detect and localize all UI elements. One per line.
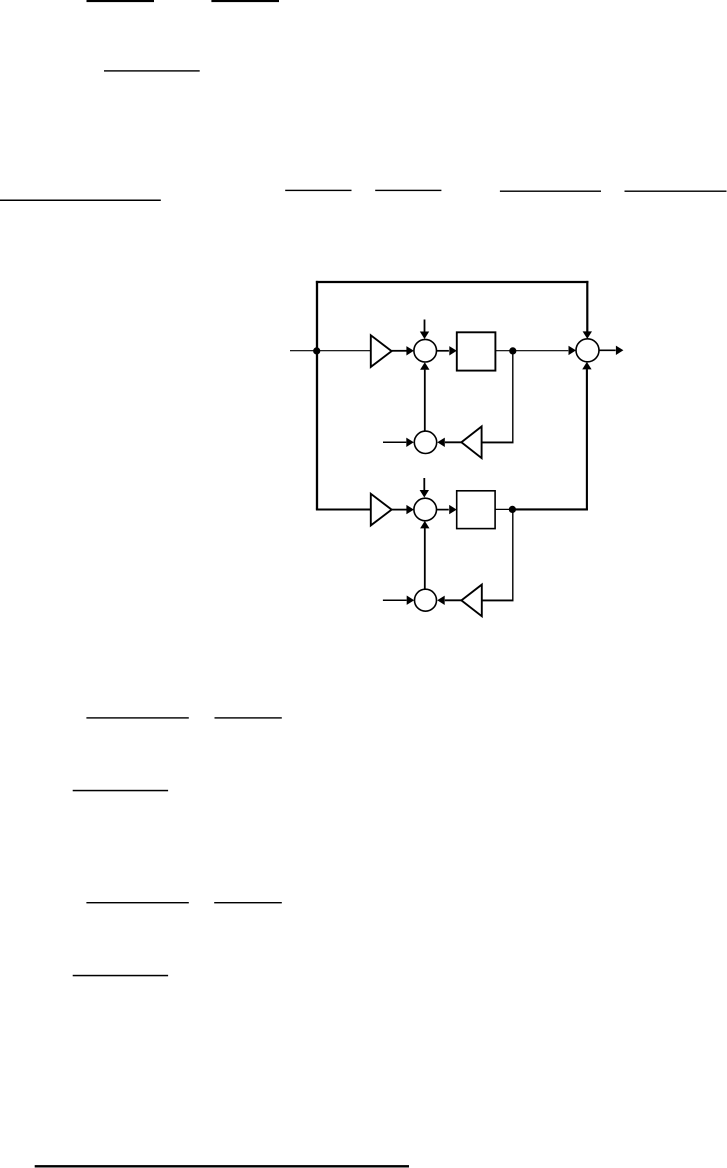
- wire: right vertical rise into output summer bottom: [586, 369, 588, 510]
- wire: D1 output to output summer S0: [495, 350, 568, 352]
- wire: S1 to delay block D1: [437, 350, 449, 352]
- equation fraction bar (fourth paragraph): [73, 975, 168, 977]
- equation fraction bar 3 of inline row: [500, 191, 601, 192]
- wire: N2 right to rising vertical: [512, 508, 588, 510]
- delay block D2 (lower branch, square): [457, 491, 495, 529]
- equation fraction bar (below diagram, row 1 left): [86, 717, 188, 718]
- arrowhead: left into summer S2 right: [437, 438, 445, 447]
- arrowhead: into output summer S0 left: [569, 346, 577, 355]
- node: input junction dot: [313, 347, 320, 354]
- wire: N1 down to feedback amp F1: [512, 351, 514, 443]
- wire: N2 down to feedback amp F2: [512, 509, 514, 600]
- summing junction S3 (lower branch): [414, 498, 437, 521]
- wire: A1 output to summer S1: [392, 350, 407, 352]
- wire: stub into S1 top: [424, 320, 426, 333]
- equation rule at left margin (clipped): [0, 200, 161, 202]
- equation fraction bar 4 of inline row: [625, 191, 727, 192]
- arrowhead: into delay block D2 left: [449, 505, 457, 514]
- wire: right vertical drop into output summer top: [586, 281, 588, 333]
- arrowhead: left into summer S4 right: [437, 596, 445, 605]
- amplifier A2 (lower branch gain, right-pointing triangle): [371, 494, 392, 526]
- wire: feedforward top line from left vertical to output summer: [316, 281, 589, 283]
- arrowhead: down into S3 top: [420, 490, 429, 498]
- wire: into F2 input (flat side): [482, 599, 514, 601]
- summing junction S1 (upper branch): [414, 339, 437, 362]
- wire: S2 up to S1 bottom: [424, 370, 426, 432]
- wire: S3 to delay block D2: [437, 509, 449, 511]
- equation fraction bar 1 of inline row: [285, 190, 351, 191]
- arrowhead: into summer S4 left: [407, 596, 415, 605]
- summing junction S2 (upper feedback): [414, 431, 436, 453]
- wire: left vertical bus: [316, 281, 318, 510]
- wire: into F1 input (flat side): [482, 441, 514, 443]
- summing junction S4 (lower feedback): [415, 589, 437, 611]
- wire: external input into S4 left: [383, 599, 407, 601]
- arrowhead: down into output summer S0 top: [583, 331, 592, 339]
- equation fraction bar 2 of inline row: [375, 190, 441, 191]
- arrowhead: up into output summer S0 bottom: [582, 362, 591, 370]
- equation fraction bar (below diagram, row 2 right): [214, 902, 282, 903]
- equation fraction bar (top second, clipped at page top): [211, 0, 279, 2]
- arrowhead: into delay block D1 left: [449, 346, 457, 355]
- equation fraction bar (below diagram, row 1 right): [215, 717, 282, 718]
- summing junction S0 (output summer): [576, 339, 599, 362]
- arrowhead: into summer S1 left: [406, 346, 414, 355]
- wire: F1 output to summer S2: [445, 441, 462, 443]
- wire: A2 output to summer S3: [392, 509, 407, 511]
- equation fraction bar (below diagram, row 2 left): [86, 902, 188, 903]
- wire: D2 output to pick-off node N2: [495, 508, 513, 510]
- wire: output line: [599, 349, 616, 351]
- arrowhead: up into S3 bottom: [420, 521, 429, 529]
- wire: S4 up to S3 bottom: [424, 528, 426, 589]
- node N1: upper branch pick-off dot: [509, 347, 516, 354]
- arrowhead: into summer S3 left: [406, 505, 414, 514]
- arrowhead: output arrow: [616, 346, 624, 355]
- arrowhead: down into S1 top: [420, 332, 429, 340]
- wire: external input into S2 left: [383, 441, 406, 443]
- arrowhead: up into S1 bottom: [420, 362, 429, 370]
- wire: input line: [290, 350, 371, 352]
- wire: F2 output to summer S4: [445, 599, 462, 601]
- amplifier A1 (upper branch gain, right-pointing triangle): [371, 335, 392, 367]
- equation fraction bar (second paragraph): [73, 790, 168, 792]
- node N2: lower branch pick-off dot: [509, 506, 516, 513]
- equation fraction bar (second equation line): [104, 70, 200, 71]
- amplifier F1 (upper feedback gain, left-pointing triangle): [461, 427, 481, 459]
- wire: left bus into lower branch amp A2: [316, 508, 371, 510]
- delay block D1 (upper branch, square): [457, 332, 496, 370]
- amplifier F2 (lower feedback gain, left-pointing triangle): [461, 585, 481, 617]
- wire: stub into S3 top: [423, 478, 425, 491]
- equation fraction bar (top left, clipped at page top): [87, 0, 155, 2]
- footnote separator rule: [35, 1165, 409, 1167]
- arrowhead: into summer S2 left: [406, 438, 414, 447]
